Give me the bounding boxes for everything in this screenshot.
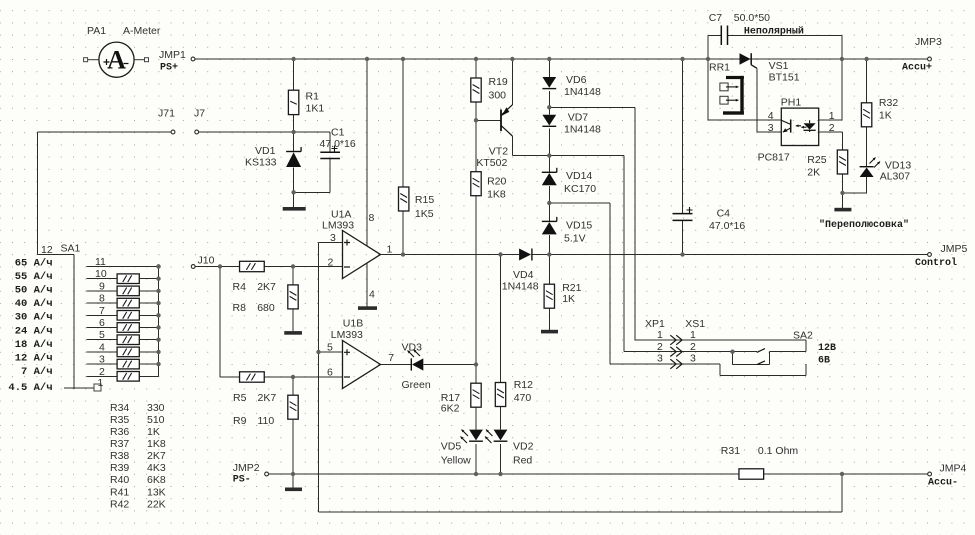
rotary switch SA1 [41, 243, 81, 257]
svg-text:R20: R20 [487, 176, 506, 188]
svg-text:7 А/ч: 7 А/ч [21, 366, 53, 378]
svg-text:5: 5 [99, 329, 105, 341]
wire tap VD6/VD7 node to XP1 pin1 [549, 106, 635, 108]
resistor R25 2K [807, 150, 847, 179]
wire R8 stems [292, 267, 294, 286]
wire tap VD14/VD15 node to XP1 pin3 [549, 202, 610, 204]
svg-text:1K: 1K [562, 293, 575, 305]
svg-text:R32: R32 [879, 97, 898, 109]
wire R1 stems [293, 59, 295, 90]
diode VD7 1N4148 [542, 112, 601, 136]
capacitor C7 50.0*50 nonpolar [709, 12, 804, 45]
resistor R9 110 [233, 395, 298, 427]
wire RR1 left + bottom to PH1 pin4 [707, 59, 709, 120]
wire main output / Control net [381, 254, 520, 256]
svg-text:VD1: VD1 [255, 145, 276, 157]
terminal JMP4 Accu- [928, 463, 967, 489]
svg-text:40 А/ч: 40 А/ч [15, 298, 53, 310]
ground under R8 [284, 331, 302, 335]
resistor R17 6K2 [441, 383, 481, 414]
wire thyristor cathode to bus node / PH1 pin1 [841, 59, 843, 120]
svg-text:2: 2 [829, 122, 835, 134]
LED VD3 Green (points left) [402, 342, 431, 392]
wire PS- / JMP2 to R31 to JMP4 [269, 473, 740, 475]
wire C7 branch [707, 35, 709, 59]
svg-text:KS133: KS133 [245, 157, 277, 169]
svg-text:Red: Red [513, 455, 532, 467]
svg-text:4: 4 [369, 289, 375, 301]
resistor R20 1K8 [471, 172, 507, 201]
svg-text:47.0*16: 47.0*16 [709, 220, 745, 232]
svg-text:1: 1 [98, 377, 104, 389]
svg-text:4: 4 [99, 341, 105, 353]
diode VD4 1N4148 [502, 249, 539, 293]
svg-text:2: 2 [657, 341, 663, 353]
wire R9 stems [292, 377, 294, 395]
ammeter PA1 [84, 25, 161, 77]
transistor VT2 KT502 (PNP) [476, 105, 512, 169]
svg-text:R38: R38 [110, 450, 129, 462]
svg-text:47.0*16: 47.0*16 [320, 138, 356, 150]
svg-text:R40: R40 [110, 474, 129, 486]
svg-text:VS1: VS1 [769, 60, 789, 72]
wire VD1 branch [293, 132, 295, 152]
svg-text:110: 110 [258, 415, 275, 427]
svg-text:R41: R41 [110, 486, 129, 498]
svg-text:300: 300 [489, 90, 507, 102]
svg-text:C1: C1 [331, 127, 345, 139]
svg-text:LM393: LM393 [322, 220, 354, 232]
svg-text:A: A [107, 45, 126, 74]
wire J7 to R1/C1 node [199, 131, 330, 133]
wire R19/R20/R17/VD5 column [475, 59, 477, 79]
svg-text:1N4148: 1N4148 [564, 86, 601, 98]
resistor ladder row 5 [117, 335, 139, 345]
svg-text:LM393: LM393 [331, 329, 363, 341]
svg-text:R34: R34 [110, 402, 129, 414]
resistor ladder row 7 [117, 311, 139, 321]
svg-text:R4: R4 [233, 281, 247, 293]
svg-text:PS-: PS- [233, 475, 251, 486]
diode VD6 1N4148 [542, 74, 601, 98]
svg-text:8: 8 [369, 212, 375, 224]
svg-text:3: 3 [99, 354, 105, 366]
svg-text:2: 2 [99, 366, 105, 378]
svg-text:1: 1 [829, 110, 835, 122]
svg-text:13K: 13K [147, 486, 166, 498]
SA1 ladder junction dots [156, 264, 160, 268]
zener VD15 5.1V [542, 217, 593, 245]
svg-text:BT151: BT151 [769, 72, 800, 84]
svg-text:Неполярный: Неполярный [744, 26, 804, 38]
terminal JMP2 PS- [233, 462, 269, 486]
svg-text:JMP3: JMP3 [915, 36, 942, 48]
wire J10 down to R5 [219, 267, 221, 378]
resistor R4 2K7 [233, 261, 277, 293]
svg-text:R12: R12 [514, 379, 533, 391]
svg-text:1: 1 [657, 329, 663, 341]
svg-text:KT502: KT502 [476, 157, 507, 169]
svg-text:5.1V: 5.1V [564, 233, 586, 245]
svg-text:Accu-: Accu- [928, 478, 958, 489]
svg-text:C4: C4 [717, 208, 731, 220]
capacitor C1 47.0*16 [320, 127, 356, 159]
svg-text:VD2: VD2 [513, 441, 534, 453]
resistor ladder row 2 [117, 372, 139, 382]
op-amp U1B LM393 [327, 318, 394, 389]
resistor R12 470 [495, 379, 533, 407]
wire VT2 emitter to bus [511, 59, 513, 105]
svg-text:VD7: VD7 [568, 112, 589, 124]
svg-text:R5: R5 [233, 392, 247, 404]
terminal J7 [194, 108, 205, 134]
svg-text:4: 4 [768, 110, 774, 122]
capacity labels A/h column [8, 257, 52, 394]
svg-text:R9: R9 [233, 415, 247, 427]
svg-text:R1: R1 [306, 91, 320, 103]
svg-text:1K8: 1K8 [147, 438, 166, 450]
resistor ladder row 8 [117, 298, 139, 308]
svg-text:"Переполюсовка": "Переполюсовка" [819, 219, 909, 231]
svg-text:VD14: VD14 [566, 170, 592, 182]
wire diode stack column [548, 59, 550, 77]
svg-text:RR1: RR1 [709, 62, 730, 74]
resistor ladder row 10 [117, 274, 139, 284]
svg-text:Accu+: Accu+ [902, 63, 932, 74]
svg-text:J71: J71 [158, 108, 175, 120]
wire VS1 gate to PH1 pin3 [756, 68, 758, 132]
wire R21 stems [548, 255, 550, 285]
wire J71 left segment to SA1 [38, 131, 171, 133]
svg-text:3: 3 [330, 232, 336, 244]
svg-text:680: 680 [257, 302, 275, 314]
wire PS+ top bus [196, 58, 928, 60]
wire inverting input net (pin3/pin5 sense line) [318, 243, 320, 513]
wire C4 branch [682, 59, 684, 214]
ground under R25/VD13 [834, 208, 851, 212]
thyristor VS1 BT151 [740, 53, 800, 83]
svg-text:470: 470 [514, 392, 532, 404]
wire bottom sense bus [319, 511, 843, 513]
wire VT2 base [476, 119, 501, 121]
svg-text:7: 7 [388, 352, 394, 364]
switch SA2 [757, 330, 836, 367]
terminal J71 [158, 108, 175, 134]
svg-text:PA1: PA1 [87, 25, 106, 37]
svg-text:SA2: SA2 [793, 330, 813, 342]
svg-text:4K3: 4K3 [147, 462, 166, 474]
svg-text:12: 12 [41, 244, 53, 256]
SA1 row wires and pin numbers [87, 267, 159, 377]
op-amp U1A LM393 [322, 209, 393, 301]
svg-text:2K7: 2K7 [257, 281, 276, 293]
svg-text:50 А/ч: 50 А/ч [15, 285, 53, 297]
wire pin4 U1A to ground [366, 263, 368, 306]
svg-text:A-Meter: A-Meter [123, 25, 161, 37]
SA1 position pad 1 [94, 384, 101, 391]
svg-text:R19: R19 [489, 76, 508, 88]
svg-text:R31: R31 [721, 445, 740, 457]
svg-text:6: 6 [99, 317, 105, 329]
svg-text:6В: 6В [818, 356, 830, 367]
connector XP1/XS1 [645, 318, 705, 369]
wire R5 out to pin6 [264, 376, 342, 378]
svg-text:VT2: VT2 [489, 146, 508, 158]
ground under VD1 [283, 207, 306, 211]
svg-text:R25: R25 [807, 154, 826, 166]
svg-text:R42: R42 [110, 498, 129, 510]
svg-text:18 А/ч: 18 А/ч [15, 339, 53, 351]
svg-text:1N4148: 1N4148 [502, 281, 539, 293]
svg-text:1K: 1K [879, 110, 892, 122]
svg-text:12В: 12В [818, 343, 836, 354]
svg-text:12 А/ч: 12 А/ч [15, 353, 53, 365]
svg-text:VD3: VD3 [402, 342, 423, 354]
capacitor C4 47.0*16 [673, 207, 746, 232]
svg-text:SA1: SA1 [61, 243, 81, 255]
svg-text:1K5: 1K5 [415, 208, 434, 220]
svg-text:3: 3 [690, 353, 696, 365]
resistor ladder row 3 [117, 359, 139, 369]
ground under R9 [285, 488, 302, 492]
svg-text:VD6: VD6 [566, 74, 587, 86]
svg-text:C7: C7 [709, 12, 723, 24]
svg-text:Yellow: Yellow [441, 455, 471, 467]
svg-text:24 А/ч: 24 А/ч [15, 325, 53, 337]
resistor ladder row 4 [117, 347, 139, 357]
svg-text:R36: R36 [110, 426, 129, 438]
svg-text:KC170: KC170 [564, 183, 596, 195]
LED VD5 Yellow [441, 430, 483, 467]
svg-text:U1B: U1B [343, 318, 363, 330]
svg-text:PC817: PC817 [758, 152, 790, 164]
zener VD14 KC170 [542, 168, 596, 195]
svg-text:VD4: VD4 [513, 269, 534, 281]
svg-text:50.0*50: 50.0*50 [734, 12, 770, 24]
svg-text:J7: J7 [194, 108, 205, 120]
resistor R15 1K5 [399, 187, 435, 220]
terminal JMP1 PS+ [159, 49, 195, 74]
LED VD13 AL307 [860, 158, 912, 183]
ground under R21 [541, 330, 558, 334]
svg-text:1N4148: 1N4148 [564, 124, 601, 136]
svg-text:6K8: 6K8 [147, 474, 166, 486]
svg-text:510: 510 [147, 414, 165, 426]
wire PH1 pin2 to R25 [819, 131, 843, 133]
resistor ladder row 9 [117, 286, 139, 296]
zener diode VD1 KS133 [245, 145, 301, 169]
terminal JMP5 Control [915, 243, 968, 269]
svg-text:8: 8 [99, 293, 105, 305]
svg-text:JMP4: JMP4 [940, 463, 967, 475]
wire pin8 U1A [366, 59, 368, 246]
svg-text:R8: R8 [233, 302, 247, 314]
svg-text:R39: R39 [110, 462, 129, 474]
junction dots misc [291, 130, 295, 134]
resistor R32 1K [861, 97, 898, 127]
svg-text:R15: R15 [415, 194, 434, 206]
svg-text:330: 330 [147, 402, 165, 414]
wire R15 branch [402, 59, 404, 195]
svg-text:VD5: VD5 [441, 441, 462, 453]
svg-text:PS+: PS+ [160, 63, 178, 74]
optocoupler PH1 PC817 [758, 97, 835, 164]
svg-text:30 А/ч: 30 А/ч [15, 312, 53, 324]
svg-text:R37: R37 [110, 438, 129, 450]
resistor R19 300 [471, 76, 508, 102]
svg-text:11: 11 [95, 256, 106, 268]
svg-text:1K1: 1K1 [306, 103, 325, 115]
svg-text:JMP1: JMP1 [159, 49, 186, 61]
wire pin7 U1B to VD3 [381, 364, 412, 366]
resistor R5 2K7 [233, 372, 276, 404]
wire tap VD7/VD14 node to XP1 pin2 [549, 155, 624, 157]
svg-text:1: 1 [690, 329, 696, 341]
resistor R8 680 [233, 285, 299, 314]
wire C1 branch [329, 132, 331, 152]
ground U1A pin4 [358, 306, 377, 310]
svg-text:6: 6 [327, 367, 333, 379]
svg-text:VD15: VD15 [566, 220, 592, 232]
svg-text:5: 5 [327, 342, 333, 354]
wire R32 branch [866, 59, 868, 103]
svg-text:10: 10 [95, 268, 107, 280]
breaker RR1 [709, 62, 744, 115]
wire J10 node to R4 and pin2 [196, 266, 240, 268]
svg-text:1K8: 1K8 [487, 189, 506, 201]
svg-text:2K7: 2K7 [147, 450, 166, 462]
svg-text:PH1: PH1 [781, 97, 802, 109]
terminal JMP3 Accu+ [902, 36, 942, 74]
svg-text:0.1 Ohm: 0.1 Ohm [758, 445, 799, 457]
svg-text:3: 3 [657, 353, 663, 365]
wire R12/VD2 column [500, 255, 502, 382]
resistor ladder row 6 [117, 323, 139, 333]
LED VD2 Red [485, 430, 534, 467]
svg-text:3: 3 [768, 122, 774, 134]
resistor R31 0.1 Ohm [721, 445, 799, 479]
svg-text:1: 1 [387, 244, 393, 256]
svg-text:2K: 2K [807, 167, 820, 179]
wire SA2 row2 common and switch [733, 351, 758, 353]
resistor value table R34-R42 [110, 402, 166, 511]
svg-text:7: 7 [99, 305, 105, 317]
svg-text:4.5 А/ч: 4.5 А/ч [8, 382, 52, 394]
svg-text:22K: 22K [147, 498, 166, 510]
svg-text:6K2: 6K2 [441, 403, 460, 415]
wire VT2 collector to VD7 node [511, 136, 513, 156]
terminal J10 [191, 255, 214, 269]
svg-text:9: 9 [99, 280, 105, 292]
svg-text:55 А/ч: 55 А/ч [15, 271, 53, 283]
svg-text:Green: Green [402, 379, 431, 391]
svg-text:2K7: 2K7 [258, 392, 277, 404]
svg-text:R35: R35 [110, 414, 129, 426]
svg-text:JMP5: JMP5 [941, 243, 968, 255]
resistor R21 1K [544, 282, 582, 308]
svg-text:2: 2 [690, 341, 696, 353]
svg-text:2: 2 [328, 257, 334, 269]
svg-text:Control: Control [915, 257, 957, 269]
resistor R1 [288, 90, 324, 114]
svg-text:1K: 1K [147, 426, 160, 438]
svg-text:JMP2: JMP2 [233, 462, 260, 474]
svg-text:AL307: AL307 [880, 171, 911, 183]
junction dots on PS+ bus [291, 57, 295, 61]
svg-text:J10: J10 [198, 255, 215, 267]
wire VD13 to ground node [866, 177, 868, 193]
svg-text:65 А/ч: 65 А/ч [15, 257, 53, 269]
